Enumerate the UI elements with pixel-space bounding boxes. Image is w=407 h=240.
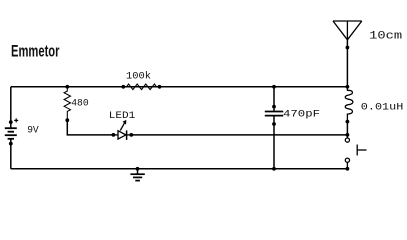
svg-text:9V: 9V (27, 125, 39, 137)
junction dot cap bottom rail (272, 167, 276, 171)
svg-text:0.01uH: 0.01uH (361, 101, 404, 113)
junction dot cap top rail (272, 85, 276, 89)
wire bottom rail (node GND) (11, 168, 348, 170)
wire 480 bottom to LED row (67, 120, 113, 135)
wire left vertical (battery branch) (10, 87, 12, 122)
junction dot top rail right (346, 85, 350, 89)
ground (130, 169, 144, 181)
inductor L1 0.01uH (345, 87, 353, 122)
svg-text:Emmetor: Emmetor (11, 43, 60, 61)
junction dot ground (136, 167, 140, 171)
wire LED row (LED to right rail) (131, 134, 347, 136)
terminal dot cap bottom (272, 122, 276, 126)
wire antenna lead (346, 40, 348, 87)
junction dot LED row right (346, 133, 350, 137)
junction dot 480 top (65, 85, 69, 89)
resistor 480 (vertical) (64, 87, 70, 120)
svg-text:10cm: 10cm (369, 31, 402, 43)
terminal dot 100k right (158, 85, 162, 89)
LED LED1 (113, 121, 131, 140)
junction dot switch bottom rail (346, 167, 350, 171)
terminal dot LED right (129, 133, 133, 137)
terminal dot 480 bottom (65, 118, 69, 122)
terminal dot LED left (112, 133, 116, 137)
battery BT1 9V (5, 118, 18, 145)
terminal dot antenna (346, 46, 350, 50)
terminal dot inductor bottom (346, 120, 350, 124)
switch S1 (push-button) (345, 135, 366, 169)
terminal dot cap top (272, 105, 276, 109)
terminal dot 100k left (121, 85, 125, 89)
wire top rail (node VCC) (11, 86, 348, 88)
svg-text:480: 480 (71, 97, 89, 109)
capacitor 470pF (265, 112, 283, 116)
svg-text:470pF: 470pF (283, 108, 320, 120)
wire inductor to LED row (346, 122, 348, 135)
svg-text:LED1: LED1 (109, 110, 136, 122)
antenna 10cm (333, 21, 362, 40)
resistor 100k (horizontal) (123, 84, 159, 90)
capacitor C1 470pF branch wire (273, 87, 275, 112)
svg-text:100k: 100k (126, 71, 151, 83)
